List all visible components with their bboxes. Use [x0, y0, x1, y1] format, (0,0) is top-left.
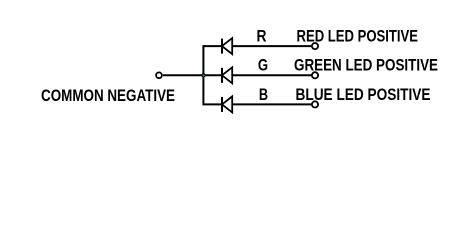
wire middle branch [203, 74, 221, 76]
LED blue D3 [222, 96, 232, 112]
svg-text:RED LED POSITIVE: RED LED POSITIVE [297, 26, 419, 45]
LED red D1 [222, 38, 232, 54]
svg-text:COMMON NEGATIVE: COMMON NEGATIVE [41, 86, 175, 105]
wire blue anode [232, 103, 311, 105]
svg-text:B: B [259, 85, 268, 104]
svg-text:GREEN LED POSITIVE: GREEN LED POSITIVE [294, 55, 438, 74]
terminal green positive [312, 72, 318, 78]
wire bus with top and bottom branches [203, 46, 221, 104]
svg-text:BLUE LED POSITIVE: BLUE LED POSITIVE [296, 85, 431, 104]
terminal blue positive [312, 101, 318, 107]
svg-text:R: R [257, 26, 267, 45]
wire red anode [232, 45, 311, 47]
terminal common negative [156, 72, 162, 78]
junction node [200, 72, 206, 78]
terminal red positive [312, 43, 318, 49]
svg-text:G: G [258, 55, 268, 74]
LED green D2 [222, 67, 232, 83]
wire green anode [232, 74, 311, 76]
wire common negative to bus [163, 74, 203, 76]
